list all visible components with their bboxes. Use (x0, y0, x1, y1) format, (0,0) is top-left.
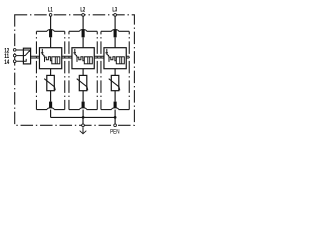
plug contact hump top M1 (47, 30, 54, 32)
terminal circle 11 (13, 54, 17, 58)
switch box K1 (23, 48, 30, 64)
electrode stack U1 (52, 57, 60, 64)
knife contact top M2 (82, 30, 85, 38)
knife contact top M3 (114, 30, 117, 38)
junction dot M2/bus (82, 116, 85, 119)
chopped-wave symbol U3 (109, 57, 116, 62)
spark gap box U1 (39, 48, 61, 69)
terminal circle L3 (113, 13, 117, 17)
wire M1 knife to spark gap (50, 37, 52, 47)
plug contact hump bottom M1 (47, 108, 54, 110)
terminal circle 12 (13, 48, 17, 52)
svg-text:14: 14 (4, 59, 9, 66)
wire terminal 11 (common) (16, 55, 25, 57)
wire M3 to PEN bus (114, 110, 116, 118)
wire M3 spark gap to varistor (114, 69, 116, 76)
svg-text:L2: L2 (80, 7, 85, 14)
svg-text:L1: L1 (48, 7, 53, 14)
knife contact bottom M2 (82, 102, 85, 109)
plug contact hump bottom M2 (80, 108, 87, 110)
terminal circle PEN (113, 124, 117, 128)
mechanical linkage U1-U2 (62, 56, 72, 58)
wire terminal 12 with NC hook (16, 50, 29, 52)
module M1 plug-in unit dashed box (36, 31, 64, 109)
knife contact bottom M1 (49, 102, 52, 109)
trigger arrow U3 (107, 49, 109, 56)
wire M2 knife to spark gap (82, 37, 84, 47)
electrode stack U3 (116, 57, 124, 64)
varistor RV1 (47, 75, 55, 90)
chopped-wave symbol U1 (45, 57, 52, 62)
wire M1 varistor down (50, 91, 52, 102)
wire M1 spark gap to varistor (50, 69, 52, 76)
svg-text:L3: L3 (112, 7, 117, 14)
wire PEN drop (114, 117, 116, 123)
wire M1 to PEN bus (50, 110, 52, 118)
knife contact top M1 (49, 30, 52, 38)
wire M3 knife to spark gap (114, 37, 116, 47)
trigger arrow U2 (75, 49, 77, 56)
mechanical linkage U3-case (126, 56, 129, 58)
svg-text:PEN: PEN (110, 128, 119, 135)
varistor RV2 (79, 75, 87, 90)
varistor RV3 (111, 75, 119, 90)
module M3 plug-in unit dashed box (101, 31, 129, 109)
wire L3 drop (114, 17, 116, 30)
junction dot M3/bus (114, 116, 117, 119)
terminal circle 14 (13, 59, 17, 63)
plug contact hump top M2 (80, 30, 87, 32)
enclosure dash-dot box (15, 15, 135, 125)
wire terminal 14 with NO hook (16, 59, 26, 61)
electrode stack U2 (84, 57, 92, 64)
knife contact bottom M3 (114, 102, 117, 109)
mechanical linkage K1-U1 (31, 56, 40, 58)
chopped-wave symbol U2 (77, 57, 84, 62)
terminal circle earth (81, 124, 85, 128)
plug contact hump bottom M3 (112, 108, 119, 110)
terminal circle L1 (49, 13, 53, 17)
spark gap box U2 (72, 48, 94, 69)
wire M2 to PEN bus (82, 110, 84, 118)
terminal circle L2 (81, 13, 85, 17)
spark gap box U3 (104, 48, 126, 69)
plug contact hump top M3 (112, 30, 119, 32)
wire M3 varistor down (114, 91, 116, 102)
module M2 plug-in unit dashed box (69, 31, 97, 109)
mechanical linkage U2-U3 (94, 56, 104, 58)
wire M2 spark gap to varistor (82, 69, 84, 76)
switch blade K1 (25, 51, 29, 56)
wire earth drop (82, 117, 84, 123)
trigger arrow U1 (42, 49, 44, 56)
wire L2 drop (82, 17, 84, 30)
wire M2 varistor down (82, 91, 84, 102)
PEN bus wire (51, 116, 116, 118)
wire L1 drop (50, 17, 52, 30)
earth arrow (82, 127, 84, 133)
